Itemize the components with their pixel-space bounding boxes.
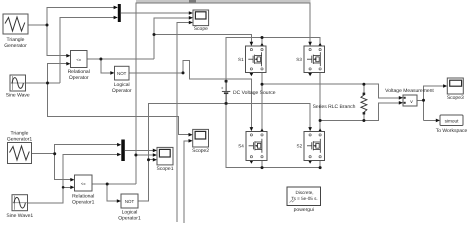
svg-text:Series RLC Branch: Series RLC Branch (313, 104, 356, 110)
svg-text:Discrete,: Discrete, (295, 190, 313, 195)
svg-text:S2: S2 (297, 144, 303, 149)
svg-text:To Workspace: To Workspace (436, 128, 468, 134)
svg-text:NOT: NOT (117, 71, 127, 76)
svg-text:Operator1: Operator1 (72, 200, 95, 206)
svg-text:Scope2: Scope2 (192, 148, 209, 154)
svg-text:Generator1: Generator1 (7, 137, 33, 143)
svg-text:Operator1: Operator1 (118, 216, 141, 222)
svg-text:Operator: Operator (69, 75, 89, 81)
svg-text:S1: S1 (238, 57, 244, 62)
svg-text:+: + (221, 86, 224, 91)
svg-text:NOT: NOT (125, 199, 135, 204)
svg-text:Voltage Measurement: Voltage Measurement (385, 88, 434, 94)
svg-text:<=: <= (76, 57, 81, 62)
svg-text:DC Voltage Source: DC Voltage Source (233, 90, 276, 96)
svg-text:powergui: powergui (294, 207, 314, 213)
svg-text:Operator: Operator (112, 88, 132, 94)
svg-text:Generator: Generator (4, 43, 27, 49)
svg-text:Scope: Scope (194, 26, 208, 32)
svg-text:Scope1: Scope1 (157, 166, 174, 172)
svg-text:Sine Wave1: Sine Wave1 (6, 213, 33, 219)
svg-text:S3: S3 (296, 57, 302, 62)
svg-text:<=: <= (81, 181, 86, 186)
svg-text:Sine Wave: Sine Wave (6, 93, 30, 99)
svg-text:S4: S4 (238, 144, 244, 149)
svg-text:simout: simout (445, 118, 460, 123)
svg-text:Ts = 5e-05 s.: Ts = 5e-05 s. (291, 196, 317, 201)
svg-text:Scope3: Scope3 (447, 95, 464, 101)
